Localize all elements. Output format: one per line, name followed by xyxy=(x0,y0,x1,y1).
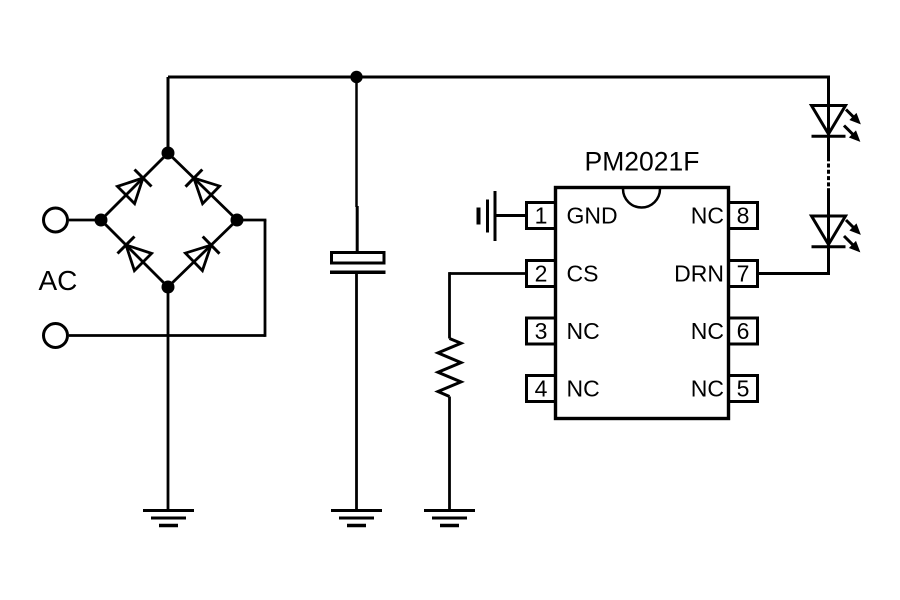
ground (pin 1, rotated) xyxy=(479,191,496,241)
wire capacitor C1 to ground xyxy=(355,272,358,510)
diode D3 (bridge lower-left) xyxy=(118,237,152,271)
diode D1 (bridge upper-left) xyxy=(117,170,151,204)
node bridge bottom (-) xyxy=(162,281,175,294)
IC U1 body xyxy=(556,188,729,419)
node bridge right (AC in) xyxy=(231,214,244,227)
diode D4 (bridge lower-right) xyxy=(185,237,219,271)
node bridge left (AC in) xyxy=(95,214,108,227)
pin 6 box xyxy=(729,318,758,344)
resistor R1 xyxy=(438,339,461,397)
svg-text:2: 2 xyxy=(535,261,548,287)
pin label NC (pin 5) xyxy=(691,376,724,402)
LED LED1 xyxy=(812,106,861,142)
wire resistor R1 to ground xyxy=(448,397,451,511)
pin label GND (pin 1) xyxy=(567,203,618,229)
ground (bridge bottom) xyxy=(143,511,194,526)
pin label NC (pin 8) xyxy=(691,203,724,229)
svg-text:NC: NC xyxy=(691,376,724,402)
svg-text:4: 4 xyxy=(535,376,548,402)
svg-text:CS: CS xyxy=(567,261,599,287)
svg-text:GND: GND xyxy=(567,203,618,229)
node bridge top (+) xyxy=(162,147,175,160)
pin 2 box xyxy=(527,261,556,287)
wire AC top terminal to bridge left node xyxy=(69,219,101,222)
svg-text:5: 5 xyxy=(737,376,750,402)
wire bridge upper-right arm xyxy=(168,153,237,220)
dotted wire (more LEDs in series) xyxy=(827,164,830,188)
svg-text:NC: NC xyxy=(691,318,724,344)
junction dot rail/capacitor xyxy=(350,71,362,83)
wire LED string segment 1 xyxy=(827,105,830,161)
label AC xyxy=(39,265,78,296)
pin 8 box xyxy=(729,203,758,229)
pin 3 box xyxy=(527,318,556,344)
wire LED string segment 2 xyxy=(827,188,830,247)
svg-text:3: 3 xyxy=(535,318,548,344)
wire rail to capacitor C1 xyxy=(355,77,358,252)
wire bridge upper-left arm xyxy=(101,153,168,220)
pin 4 box xyxy=(527,376,556,402)
pin label NC (pin 6) xyxy=(691,318,724,344)
svg-text:PM2021F: PM2021F xyxy=(585,147,700,177)
AC terminal top xyxy=(44,208,68,232)
pin label NC (pin 3) xyxy=(567,318,600,344)
svg-text:1: 1 xyxy=(535,203,548,229)
svg-text:NC: NC xyxy=(567,376,600,402)
AC terminal bottom xyxy=(44,324,68,348)
svg-text:NC: NC xyxy=(567,318,600,344)
capacitor C1 (polarized) xyxy=(330,253,386,273)
wire top rail xyxy=(168,76,830,79)
pin label NC (pin 4) xyxy=(567,376,600,402)
ground (resistor) xyxy=(424,511,475,526)
diode D2 (bridge upper-right) xyxy=(186,170,220,204)
LED LED2 xyxy=(812,216,861,252)
wire bridge lower-right arm xyxy=(168,220,237,287)
pin label CS (pin 2) xyxy=(567,261,599,287)
svg-text:NC: NC xyxy=(691,203,724,229)
IC U1 PM2021F label xyxy=(585,147,700,177)
wire LED string to pin 7 (DRN) xyxy=(758,246,831,275)
svg-text:DRN: DRN xyxy=(674,261,724,287)
wire pin 2 (CS) to resistor R1 xyxy=(450,272,527,338)
svg-text:8: 8 xyxy=(737,203,750,229)
wire rail to LED string xyxy=(827,77,830,107)
wire rail to bridge top xyxy=(167,77,170,153)
wire bridge bottom to ground xyxy=(167,287,170,510)
ground (capacitor) xyxy=(331,511,382,526)
pin 5 box xyxy=(729,376,758,402)
pin label DRN (pin 7) xyxy=(674,261,724,287)
wire bridge lower-left arm xyxy=(101,220,168,287)
pin 7 box xyxy=(729,261,758,287)
wire pin 1 to ground xyxy=(495,214,527,217)
svg-text:6: 6 xyxy=(737,318,750,344)
svg-text:7: 7 xyxy=(737,261,750,287)
pin 1 box xyxy=(527,203,556,229)
wire AC bottom terminal to bridge right node (crosses bridge-bottom wire) xyxy=(69,220,266,337)
svg-text:AC: AC xyxy=(39,265,78,296)
